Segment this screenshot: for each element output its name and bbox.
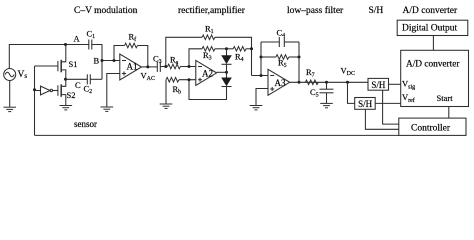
ground below Vs: [3, 107, 16, 111]
svg-text:C3: C3: [153, 54, 162, 66]
wire control riser: [34, 66, 36, 135]
wire C2 to B riser: [90, 78, 102, 80]
wire VDC riser to S/H2: [348, 82, 355, 103]
svg-text:B: B: [94, 56, 100, 66]
wire S/H2 to A/D Vref: [375, 102, 401, 104]
wire B to A1 minus: [102, 60, 120, 62]
svg-text:Controller: Controller: [411, 124, 451, 134]
source Vs: [4, 69, 16, 81]
wire S/H2 drop to controller: [365, 109, 398, 129]
svg-text:R5: R5: [278, 58, 287, 70]
junction dot feedback on plus wire: [188, 78, 191, 81]
svg-text:C5: C5: [310, 87, 319, 99]
junction dot R1 riser: [164, 65, 167, 68]
svg-text:C: C: [75, 80, 81, 90]
svg-text:R1: R1: [205, 24, 214, 36]
wire A1 output: [142, 66, 158, 68]
junction dot A1 output: [146, 65, 149, 68]
Digital Output box: [397, 20, 468, 35]
resistor R7: [305, 80, 318, 85]
svg-text:C4: C4: [277, 28, 286, 40]
wire A1 plus to ground: [107, 74, 120, 108]
junction dot Rf riser on B wire: [113, 59, 116, 62]
capacitor C2: [87, 74, 90, 84]
wire C to C2: [66, 78, 88, 80]
svg-text:S/H: S/H: [358, 99, 373, 109]
svg-text:Vs: Vs: [18, 70, 28, 80]
op-amp A2: [196, 60, 217, 85]
ground below A3: [250, 106, 263, 110]
capacitor C4: [261, 37, 299, 47]
svg-text:Start: Start: [437, 93, 454, 103]
resistor R4: [227, 48, 234, 50]
svg-text:S/H: S/H: [371, 80, 386, 90]
junction dot inverter tap: [33, 88, 36, 91]
junction dot R3 riser: [188, 65, 191, 68]
wire Digital Output to A/D: [432, 36, 434, 51]
svg-text:Rf: Rf: [129, 32, 137, 44]
wire A3 output rail: [290, 81, 368, 83]
wire rectifier bottom feedback loop: [189, 80, 227, 100]
wire riser to R5 and C4: [260, 42, 262, 76]
resistor R3: [189, 49, 202, 67]
wire A3 minus input: [252, 75, 269, 77]
wire C1 to B riser: [92, 45, 102, 80]
junction dot R5 rail left: [260, 56, 263, 59]
node B junction dot: [101, 59, 104, 62]
S/H box 2: [355, 98, 376, 110]
wire A2 output: [217, 71, 227, 73]
A/D converter box: [401, 50, 469, 106]
junction dot VDC: [346, 81, 349, 84]
junction dot R1-R4 column: [250, 47, 253, 50]
resistor Rb: [165, 80, 167, 104]
junction dot A3 output: [298, 81, 301, 84]
wire Vs bottom stem: [9, 81, 11, 108]
svg-text:rectifier,amplifier: rectifier,amplifier: [178, 5, 246, 16]
wire C4/R5 right riser: [298, 42, 300, 82]
wire node A top rail: [9, 44, 89, 46]
diode D2: [221, 72, 232, 86]
svg-text:Ra: Ra: [170, 55, 179, 67]
svg-text:Vref: Vref: [402, 92, 415, 104]
svg-text:VDC: VDC: [341, 66, 355, 78]
inverter U1: [35, 86, 58, 95]
svg-text:A1: A1: [127, 62, 138, 72]
junction dot R5 rail right: [298, 56, 301, 59]
ground below A1: [101, 107, 114, 111]
S/H box 1: [368, 78, 389, 90]
wire Vs top riser: [8, 44, 10, 69]
junction dot diode midpoint: [225, 71, 228, 74]
wire C3 to Ra: [160, 66, 167, 68]
svg-text:VAC: VAC: [141, 71, 155, 83]
transistor S1: [35, 45, 66, 80]
svg-text:C–V modulation: C–V modulation: [74, 6, 138, 16]
svg-text:low–pass filter: low–pass filter: [287, 5, 344, 16]
wire Ra to A2 minus: [181, 66, 196, 68]
op-amp A1: [120, 54, 142, 80]
ground below S2: [60, 106, 73, 110]
ground below Rb: [160, 104, 173, 108]
svg-text:C1: C1: [87, 29, 96, 41]
capacitor C1: [89, 40, 92, 50]
junction dot C5: [325, 81, 328, 84]
op-amp A3: [268, 69, 290, 95]
junction dot R3-R4-diode: [225, 47, 228, 50]
resistor R1 top rail: [166, 37, 202, 66]
diode D1: [221, 49, 232, 73]
svg-text:A/D converter: A/D converter: [403, 6, 458, 16]
wire controller long control line to sensor: [35, 134, 399, 136]
svg-text:S1: S1: [69, 59, 78, 69]
svg-text:A: A: [74, 34, 81, 44]
ground below C5: [320, 103, 333, 107]
junction dot S1 drain on A rail: [64, 43, 67, 46]
svg-text:A3: A3: [275, 78, 286, 88]
node C junction dot: [64, 78, 67, 81]
svg-text:A2: A2: [202, 69, 213, 79]
junction dot R5C4 riser: [260, 74, 263, 77]
capacitor C5: [320, 82, 334, 103]
svg-text:Digital Output: Digital Output: [402, 24, 458, 34]
Controller box: [399, 118, 466, 135]
wire S/H1 to A/D Vsig: [389, 83, 401, 85]
svg-text:A/D converter: A/D converter: [406, 59, 460, 69]
svg-text:R7: R7: [306, 67, 315, 79]
svg-text:Vsig: Vsig: [402, 79, 415, 91]
svg-text:S/H: S/H: [369, 6, 384, 16]
svg-text:S2: S2: [67, 90, 76, 100]
svg-text:R3: R3: [203, 50, 212, 62]
svg-text:C2: C2: [84, 84, 93, 96]
resistor Ra: [168, 64, 181, 69]
wire S/H1 drop to controller: [383, 90, 399, 124]
svg-text:R4: R4: [235, 52, 244, 64]
svg-text:sensor: sensor: [74, 119, 97, 129]
wire A3 plus to ground: [256, 89, 268, 106]
capacitor C3: [157, 62, 160, 72]
resistor R5: [261, 56, 276, 58]
wire Start to Controller: [448, 107, 450, 119]
resistor Rf feedback: [114, 46, 125, 61]
svg-text:Rb: Rb: [173, 84, 182, 96]
transistor S2: [58, 79, 66, 105]
